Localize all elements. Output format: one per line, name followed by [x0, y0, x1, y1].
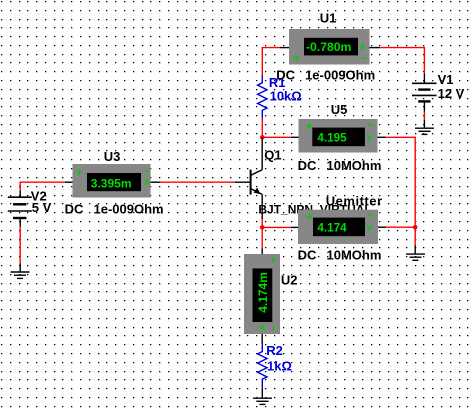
svg-text:10kΩ: 10kΩ	[270, 89, 302, 104]
wire emitter node down to U2	[261, 227, 263, 254]
ground bottom	[253, 398, 272, 404]
wire U5 right to emitter net	[378, 137, 416, 227]
svg-text:3.395m: 3.395m	[91, 177, 132, 191]
svg-text:A: A	[258, 324, 268, 330]
ground under V1	[415, 128, 434, 134]
svg-text:U5: U5	[331, 102, 348, 117]
svg-text:Uemitter: Uemitter	[326, 194, 383, 209]
wire V2 to U3 left	[20, 182, 73, 190]
svg-text:V1: V1	[438, 72, 454, 87]
resistor R2	[258, 344, 267, 388]
ammeter U3	[73, 164, 151, 198]
voltmeter Uemitter	[298, 210, 378, 244]
svg-text:4.174: 4.174	[317, 222, 347, 235]
svg-text:V: V	[366, 132, 372, 142]
ground right	[406, 254, 425, 260]
battery V2	[8, 190, 32, 218]
wire U3 right to Q1 base	[151, 181, 251, 183]
svg-text:U2: U2	[281, 273, 298, 288]
wire R1 to collector node	[261, 118, 263, 137]
wire V2 to ground	[19, 218, 21, 272]
node collector junction	[260, 135, 265, 140]
svg-text:Q1: Q1	[264, 147, 281, 162]
svg-text:V: V	[366, 223, 372, 233]
wire V1 to ground	[423, 112, 425, 128]
wire U1 left to node	[262, 48, 289, 76]
svg-text:DC 1e-009Ohm: DC 1e-009Ohm	[65, 201, 164, 216]
battery V1	[412, 74, 437, 112]
voltmeter U5	[299, 119, 378, 153]
transistor Q1	[251, 137, 263, 219]
svg-text:5 V: 5 V	[32, 200, 52, 215]
wire node to U5 left	[262, 136, 299, 138]
svg-text:4.195: 4.195	[317, 132, 347, 145]
svg-text:-0.780m: -0.780m	[306, 40, 352, 54]
wire right junction to ground	[414, 227, 416, 254]
ammeter U2	[244, 254, 280, 334]
ammeter U1	[289, 29, 370, 65]
ground under V2	[11, 272, 30, 278]
wire U1 right to V1	[370, 48, 425, 74]
wire Uemitter right	[378, 226, 415, 228]
wire R2 to ground	[261, 388, 263, 398]
svg-text:A: A	[144, 177, 150, 187]
node emitter junction	[260, 219, 265, 230]
svg-text:U3: U3	[104, 149, 121, 164]
node right junction	[413, 225, 418, 230]
wire emitter node to Uemitter left	[262, 226, 298, 228]
wire U2 bottom to R2	[261, 334, 263, 344]
svg-text:A: A	[360, 42, 366, 52]
svg-text:1kΩ: 1kΩ	[267, 358, 292, 373]
svg-text:R2: R2	[266, 343, 283, 358]
resistor R1	[258, 76, 267, 119]
svg-text:U1: U1	[320, 11, 337, 26]
svg-text:DC 10MOhm: DC 10MOhm	[298, 248, 382, 263]
svg-text:DC 1e-009Ohm: DC 1e-009Ohm	[276, 68, 375, 83]
svg-text:12 V: 12 V	[438, 86, 465, 101]
svg-text:4.174m: 4.174m	[256, 272, 270, 313]
svg-text:DC 10MOhm: DC 10MOhm	[298, 158, 382, 173]
